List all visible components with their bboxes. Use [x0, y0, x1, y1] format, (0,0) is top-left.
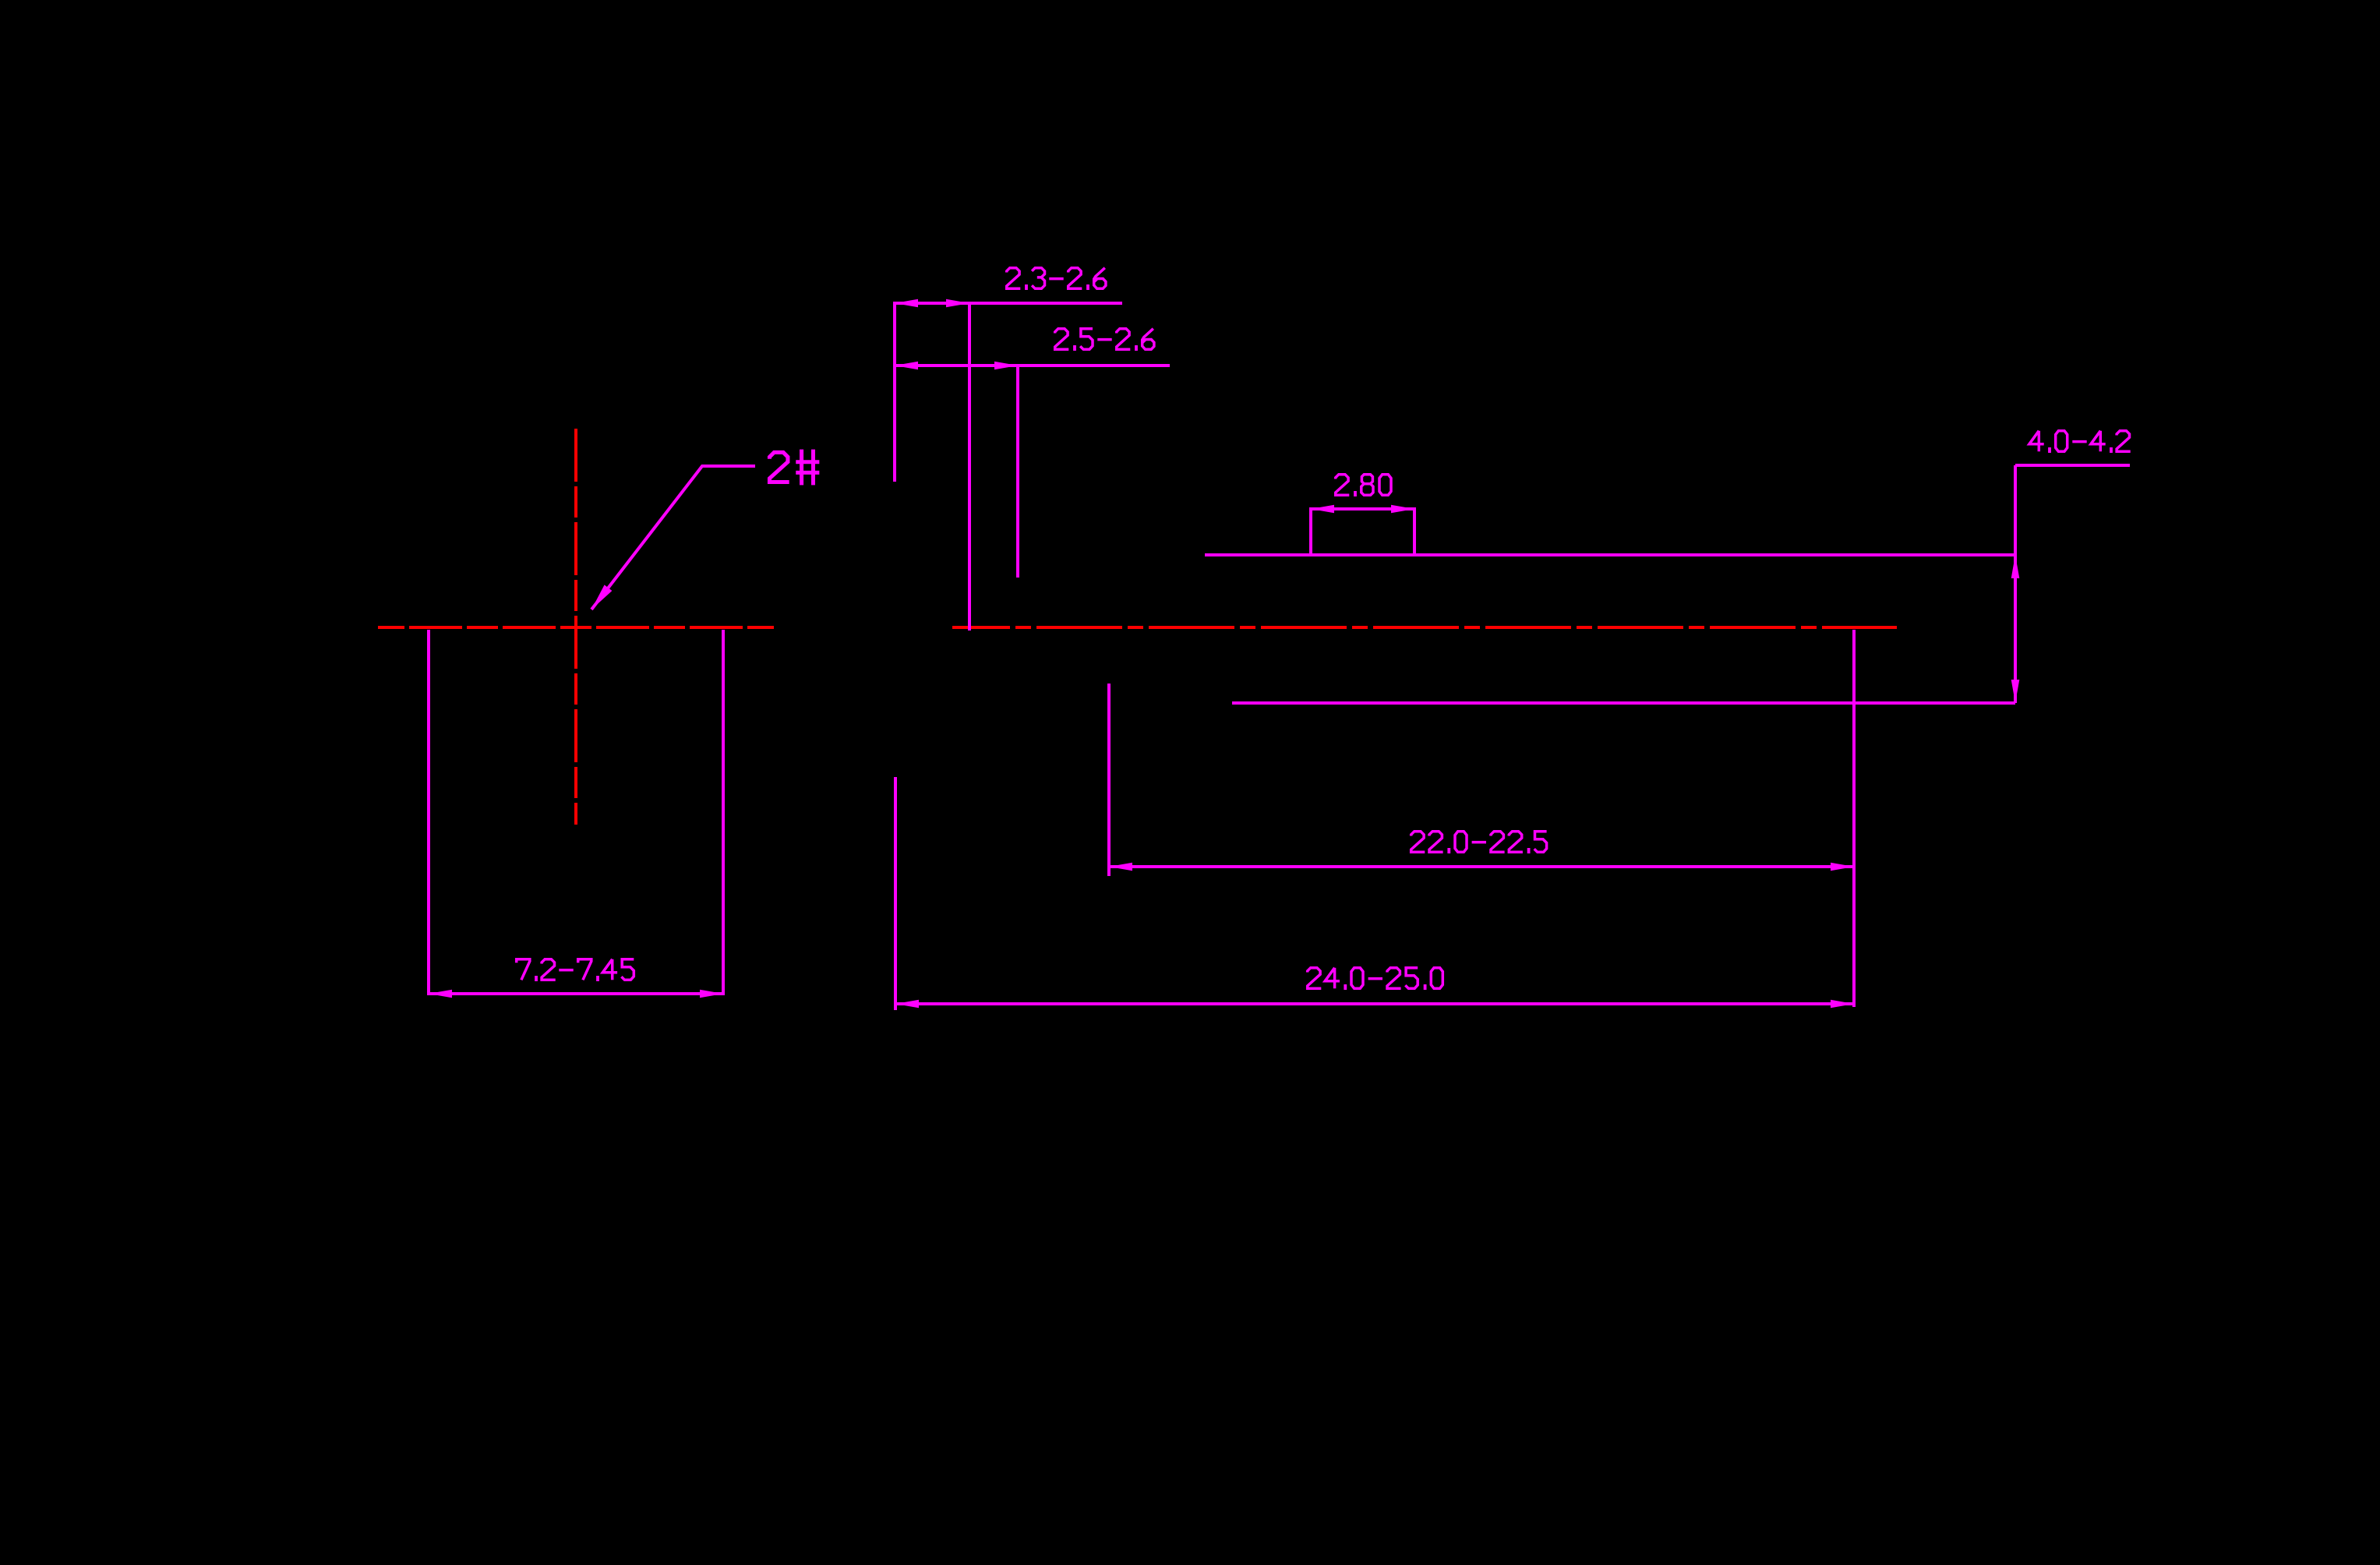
text 2.3-2.6	[1007, 268, 1106, 290]
extension line right (x=2379)	[1852, 630, 1856, 1007]
part bottom line	[1232, 701, 2015, 705]
arrow left 24.0-25.0	[895, 1000, 919, 1009]
text 2.5-2.6	[1055, 329, 1154, 351]
text 4.0-4.2	[2029, 431, 2131, 453]
dimension line 24.0-25.0	[895, 1002, 1854, 1005]
extension line 1 (x=1148 upper)	[893, 302, 896, 482]
arrow right 2.80	[1391, 505, 1414, 514]
arrow down 4.0-4.2	[2011, 680, 2020, 703]
leader line 2#	[591, 466, 755, 609]
text 24.0-25.0	[1308, 968, 1443, 990]
text 22.0-22.5	[1411, 832, 1547, 853]
vertical red centerline	[574, 429, 577, 825]
arrow left 7.2-7.45	[429, 990, 452, 998]
4.0-4.2 vertical extension + dimension line	[2014, 465, 2017, 703]
dimension line 2.5-2.6	[895, 364, 1170, 367]
dimension line 2.80	[1311, 507, 1414, 510]
extension line left of 7.2-7.45	[427, 630, 430, 995]
part top line	[1205, 553, 2015, 556]
arrow right 2.3-2.6	[946, 299, 969, 308]
extension line 3 (x=1306)	[1016, 366, 1019, 578]
extension line right of 7.2-7.45	[722, 630, 725, 995]
arrow right 22.0-22.5	[1831, 863, 1854, 871]
leader arrowhead 2#	[588, 585, 612, 612]
dimension line 2.3-2.6	[895, 302, 1122, 305]
extension line left of 22.0-22.5	[1107, 684, 1111, 876]
arrow left 22.0-22.5	[1109, 863, 1132, 871]
extension line 2 (x=1244)	[968, 302, 971, 631]
arrow left 2.80	[1311, 505, 1334, 514]
arrow right 2.5-2.6	[994, 362, 1018, 370]
extension line left of 24.0-25.0 (x=1149 lower)	[894, 777, 897, 1010]
dimension line 7.2-7.45	[429, 992, 723, 995]
arrow left 2.5-2.6	[895, 362, 918, 370]
arrow up 4.0-4.2	[2011, 555, 2020, 578]
arrow left 2.3-2.6	[895, 299, 918, 308]
dimension line 22.0-22.5	[1109, 865, 1854, 868]
arrow right 24.0-25.0	[1831, 1000, 1854, 1009]
4.0-4.2 label line	[2015, 464, 2130, 467]
extension line right of 2.80	[1413, 507, 1416, 553]
horizontal red centerline	[952, 626, 1897, 629]
text 7.2-7.45	[517, 959, 634, 981]
text 2#	[769, 450, 819, 486]
text 2.80	[1336, 475, 1391, 496]
arrow right 7.2-7.45	[700, 990, 723, 998]
horizontal red centerline	[378, 626, 774, 629]
extension line left of 2.80	[1309, 507, 1312, 553]
